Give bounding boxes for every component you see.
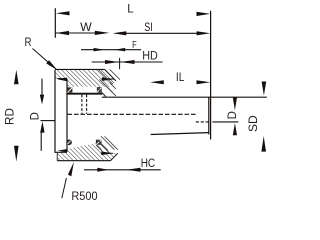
dimension HC label <box>141 158 156 170</box>
dimension RD label (rotated) <box>4 108 16 125</box>
dimension D-left label (rotated) <box>30 112 42 120</box>
dimension D-left arrow up <box>40 121 44 132</box>
dimension F arrow left-pointing <box>115 48 126 52</box>
hub block top edge <box>55 68 104 70</box>
dimension HC arrow right-pointing <box>97 168 108 172</box>
end dashed line at y122 <box>196 121 209 123</box>
bottom block bottom edge <box>57 160 110 162</box>
dimension HD label <box>142 51 158 63</box>
dimension L arrow left <box>56 11 70 15</box>
dimension HC line <box>84 169 161 171</box>
svg-text:L: L <box>127 4 134 16</box>
bottom hub arrow right <box>101 152 113 156</box>
bottom block left edge <box>56 152 58 160</box>
dimension D-right label (rotated) <box>227 111 239 119</box>
dimension W label <box>80 22 92 34</box>
dimension W line <box>56 32 96 34</box>
dimension HD arrow right-pointing <box>105 60 119 64</box>
dimension HC arrow left-pointing <box>126 168 140 172</box>
svg-text:W: W <box>80 22 92 34</box>
groove square left <box>67 87 72 92</box>
leader R500 arrowhead <box>68 162 74 177</box>
dimension SI arrow left <box>113 31 127 35</box>
hidden bore dashed vertical left <box>81 95 83 114</box>
dimension D-right arrow down <box>233 97 237 110</box>
shaft end face <box>208 97 210 134</box>
centerline dashed horizontal <box>68 113 196 115</box>
dimension SI arrow right <box>197 31 211 35</box>
dimension F arrow right-pointing <box>94 48 104 52</box>
hub width arrow left <box>58 78 67 81</box>
dimension RD arrow up <box>14 70 19 84</box>
shaft top line + D-right extension <box>102 96 267 98</box>
svg-text:RD: RD <box>4 108 16 125</box>
rim bar top edge line <box>57 78 67 80</box>
dimension D-right arrow up <box>233 123 237 135</box>
leader R arrowhead <box>46 60 57 70</box>
dimension L arrow right <box>197 12 211 16</box>
dimension D-left arrow down <box>40 95 44 105</box>
dimension SD arrow up <box>261 136 266 152</box>
dimension HD extension tick <box>119 58 121 69</box>
rim bar top arrow <box>58 78 67 82</box>
dimension W arrow right <box>95 31 110 35</box>
dimension SI line <box>125 32 199 34</box>
bottom block diagonal right edge <box>110 153 117 161</box>
leader R500 line <box>62 178 67 198</box>
dimension IL arrow right <box>197 80 211 84</box>
dimension RD arrow down <box>14 146 19 162</box>
leader R line <box>33 49 57 70</box>
bottom groove circle <box>67 140 72 145</box>
hub width arrow right <box>102 77 115 81</box>
svg-text:IL: IL <box>176 72 185 84</box>
dimension F label <box>132 39 137 51</box>
svg-text:D: D <box>227 111 239 119</box>
leader R500 label <box>71 189 97 203</box>
bottom groove square <box>96 140 102 145</box>
rim bar right edge <box>66 79 68 152</box>
dimension IL label <box>176 72 185 84</box>
dimension D-left extension line lower <box>40 132 42 151</box>
transition hatch upper ("\" lines) <box>97 69 120 97</box>
leader R label <box>25 37 32 49</box>
svg-text:R: R <box>25 37 32 49</box>
dimension F line <box>81 49 141 51</box>
bottom transition hatch ("\" lines) <box>96 136 118 153</box>
dimension HD line <box>92 61 163 63</box>
bottom rim block hatch fill <box>57 143 117 161</box>
svg-text:F: F <box>132 39 137 51</box>
dimension SI label <box>144 22 153 34</box>
dimension L extension line left <box>54 8 56 38</box>
svg-text:SD: SD <box>248 115 260 132</box>
hidden bore dashed vertical right <box>86 95 88 114</box>
dimension SD label (rotated) <box>248 115 260 132</box>
groove square right <box>97 87 102 92</box>
dimension HD arrow left-pointing <box>120 60 134 64</box>
hub bottom thick line <box>67 93 102 95</box>
svg-text:D: D <box>30 112 42 120</box>
svg-text:HD: HD <box>142 51 158 63</box>
svg-text:SI: SI <box>144 22 153 34</box>
D-right reference line <box>212 121 238 123</box>
dimension SD arrow down <box>262 82 267 96</box>
svg-text:HC: HC <box>141 158 156 170</box>
dimension D-left reference line <box>41 120 55 122</box>
hub block hatch fill <box>55 69 116 86</box>
rim bar left edge <box>54 70 56 153</box>
dimension W arrow left <box>56 31 69 35</box>
dimension L label <box>127 4 134 16</box>
rim bar bottom arrow <box>58 149 67 152</box>
dimension IL arrow left <box>150 80 164 84</box>
hub block diagonal right edge <box>105 69 116 81</box>
rim bar bottom edge line <box>55 151 67 153</box>
shaft bottom line <box>151 133 209 135</box>
dimension L / IL extension line right <box>210 11 212 140</box>
svg-text:R500: R500 <box>71 189 97 203</box>
dimension D-left extension line upper <box>41 79 43 96</box>
